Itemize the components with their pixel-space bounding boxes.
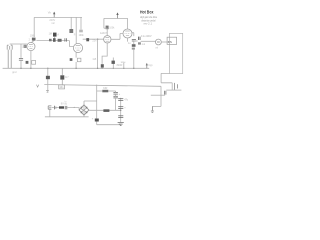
mark arrow small <box>37 85 39 88</box>
capacitor C5 bars <box>65 38 67 41</box>
ground bus <box>3 67 150 69</box>
node grid V2a junction <box>97 39 98 40</box>
resistor R16 <box>102 90 108 93</box>
wire rail drop a <box>70 17 72 29</box>
wire pot to switch box <box>161 41 169 43</box>
node bus j1 <box>20 68 21 69</box>
wire lower right return <box>151 94 165 96</box>
wire input load leg <box>20 44 22 58</box>
resistor R9 (V2a plate load) <box>106 26 109 30</box>
wire C9 down <box>133 41 135 44</box>
capacitor C4 (rail bypass) <box>79 30 83 32</box>
wire V1b cathode <box>75 53 77 69</box>
node bus j7 <box>133 68 134 69</box>
wire tone leg <box>123 63 125 69</box>
wire lower row <box>44 85 161 87</box>
capacitor C6 cathode box <box>77 58 81 62</box>
capacitor C3 coupling <box>49 39 52 42</box>
capacitor C10 lower blob <box>138 42 141 44</box>
capacitor C12 label box <box>59 85 65 89</box>
capacitor C2 cathode bypass box <box>32 61 36 65</box>
svg-text:22n: 22n <box>92 39 97 42</box>
wire V1b plate to V2a grid <box>83 38 104 40</box>
node bus j6 <box>123 68 124 69</box>
power arrow right rail <box>116 12 118 18</box>
node bus j5b <box>113 68 114 69</box>
potentiometer VR2 volume <box>156 39 162 45</box>
tube V1b triode <box>73 43 82 52</box>
wire V1a cathode down <box>30 50 32 68</box>
wire rail drop b (V1b plate) <box>75 17 77 43</box>
resistor R13 <box>132 44 136 47</box>
wire bridge bottom <box>83 115 85 117</box>
svg-text:tone: tone <box>121 61 126 64</box>
power arrow +9V boost rail <box>53 12 55 18</box>
node bus j4 <box>75 68 76 69</box>
resistor R4 series <box>53 38 56 42</box>
wire output jack bottom <box>166 89 181 91</box>
ground stub marks <box>46 91 49 93</box>
wire rail right left drop <box>103 18 105 28</box>
capacitor C16 electrolytic <box>95 119 99 122</box>
switch enclosure box <box>169 33 182 73</box>
resistor R17 <box>103 109 109 112</box>
battery B1 <box>55 106 56 110</box>
switch S1 power <box>59 106 64 108</box>
node bus j5a <box>102 68 103 69</box>
svg-text:0.1u 400V: 0.1u 400V <box>141 36 152 38</box>
wire R15 leads <box>61 68 63 85</box>
resistor R1 (V1a plate load) <box>32 38 36 41</box>
capacitor C17 <box>118 99 123 101</box>
resistor R12 cathode <box>112 61 115 64</box>
wire V2b output <box>132 33 134 36</box>
wire B+ rail right section <box>104 17 128 19</box>
node bus j2 <box>30 68 31 69</box>
wire to volume control <box>134 40 138 42</box>
wire C1 to ground bus <box>20 61 22 69</box>
resistor R3 cathode <box>26 61 29 64</box>
wire jack to battery <box>51 107 54 109</box>
wire interstage row <box>36 41 73 47</box>
input jack J1 <box>7 45 12 68</box>
resistor R10 cathode <box>101 64 104 67</box>
wire to bridge <box>67 108 79 110</box>
svg-text:12AX7: 12AX7 <box>100 32 108 35</box>
wire cap to pot <box>141 40 156 42</box>
wire to ground lug <box>152 105 161 107</box>
wire stub diamond top <box>84 101 97 105</box>
wire B+ rail left section <box>34 16 82 18</box>
wire mid ground leg <box>47 68 49 92</box>
wire battery to switch <box>56 107 59 109</box>
capacitor C13 pair <box>113 92 118 94</box>
resistor R6 series <box>58 39 62 42</box>
resistor R2 grid stopper <box>24 45 27 48</box>
bypass arrow <box>146 63 148 68</box>
svg-text:100k: 100k <box>30 35 36 37</box>
svg-text:100k: 100k <box>109 27 115 30</box>
wire caps leg <box>115 91 117 110</box>
ground symbol power <box>118 123 124 126</box>
wire C16 to ground row <box>97 122 121 125</box>
capacitor C19 <box>118 116 123 118</box>
svg-text:820R: 820R <box>117 64 123 67</box>
node bus j3 <box>47 68 48 69</box>
svg-text:gnd: gnd <box>12 71 17 74</box>
resistor R14 <box>46 76 50 79</box>
resistor R7 cathode <box>70 58 73 61</box>
wire plate R1 to V1a <box>31 41 34 43</box>
svg-text:100k: 100k <box>79 35 85 37</box>
svg-text:rail: rail <box>51 22 55 25</box>
capacitor C10 series <box>138 37 140 40</box>
wire pot wiper <box>54 37 56 41</box>
resistor R13b lower <box>132 48 135 50</box>
ground lug mark <box>151 106 154 112</box>
wire jog to V2a plate <box>104 28 107 35</box>
wire power ground rail <box>45 116 89 118</box>
wire R13 to bus <box>133 50 135 69</box>
wire rail right right drop (V2b plate) <box>127 18 129 29</box>
diode bridge D1-D4 <box>79 105 89 115</box>
wire box to output step <box>161 73 172 90</box>
output jack J2 <box>175 83 178 90</box>
wire drop to plate resistor R1 <box>33 17 35 37</box>
tube V2b triode <box>123 29 132 38</box>
capacitor C20 <box>164 91 166 95</box>
wire output bus right <box>160 86 162 106</box>
wire V2a cathode <box>102 43 107 64</box>
wire V2b cathode run <box>113 38 127 68</box>
footswitch label box <box>167 37 177 44</box>
svg-text:10n: 10n <box>59 86 64 89</box>
svg-text:1M: 1M <box>49 33 52 36</box>
tube V2a triode <box>104 36 111 43</box>
wire filter column <box>120 98 122 123</box>
svg-text:byp: byp <box>149 64 154 67</box>
wire rail drop c <box>80 17 82 29</box>
svg-text:out: out <box>142 43 146 46</box>
capacitor C9 output coupling <box>132 40 136 41</box>
wire R10 to bus <box>101 67 103 70</box>
wire R16 row <box>97 90 116 92</box>
wire jack sleeve down <box>49 109 51 117</box>
capacitor C14 pair <box>113 96 118 98</box>
wire input to V1a grid <box>10 43 27 45</box>
svg-text:vol: vol <box>155 48 158 50</box>
wire grid leak to bus <box>97 39 99 68</box>
wire V2a plate to V2b grid <box>111 34 123 40</box>
svg-text:Vb: Vb <box>48 11 52 15</box>
capacitor C15 <box>65 106 67 109</box>
svg-text:1M: 1M <box>22 46 25 48</box>
potentiometer VR1 gain <box>53 33 57 37</box>
node power j8 <box>120 110 121 111</box>
wire vertical charge pump <box>96 85 98 119</box>
dc jack J3 <box>48 106 51 109</box>
resistor R15 <box>60 75 64 79</box>
capacitor C7 coupling <box>86 38 89 41</box>
node bus j5 <box>97 68 98 69</box>
svg-text:rev 2.1: rev 2.1 <box>144 22 153 26</box>
svg-text:Hot Box: Hot Box <box>140 9 154 14</box>
svg-text:1k5: 1k5 <box>92 58 97 61</box>
tube V1a triode <box>27 42 35 50</box>
capacitor C1 to ground <box>19 58 23 60</box>
svg-text:FS: FS <box>168 40 172 44</box>
resistor R5 (V1b plate load) <box>69 29 73 33</box>
capacitor C18 <box>118 107 123 109</box>
wire bridge out row <box>89 109 121 111</box>
svg-text:33R: 33R <box>103 87 108 90</box>
